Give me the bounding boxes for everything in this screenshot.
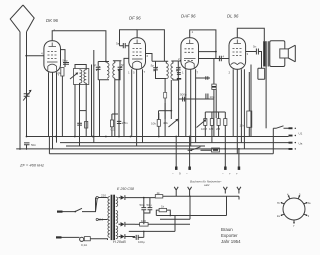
svg-text:+: + — [229, 172, 231, 176]
svg-text:−: − — [222, 172, 224, 176]
svg-text:DF 96: DF 96 — [129, 16, 141, 21]
svg-text:0,1A: 0,1A — [81, 243, 87, 247]
svg-text:50p: 50p — [63, 59, 68, 63]
svg-text:DK 96: DK 96 — [46, 18, 59, 23]
svg-text:E 250 C58: E 250 C58 — [117, 187, 134, 191]
svg-text:5p: 5p — [93, 63, 97, 67]
svg-text:40k: 40k — [163, 121, 168, 125]
svg-text:220: 220 — [101, 194, 106, 198]
svg-text:100: 100 — [141, 219, 146, 223]
svg-text:5p: 5p — [151, 64, 155, 68]
svg-text:−: − — [186, 172, 188, 176]
svg-text:Exporter: Exporter — [221, 233, 238, 238]
svg-text:10k: 10k — [56, 71, 61, 75]
svg-text:Ua: Ua — [299, 142, 303, 146]
svg-text:1k: 1k — [161, 205, 165, 209]
svg-text:50n: 50n — [31, 143, 36, 147]
svg-text:+: + — [148, 205, 150, 209]
svg-text:10k: 10k — [151, 122, 156, 126]
svg-text:5a: 5a — [116, 42, 120, 46]
svg-text:0,1: 0,1 — [111, 128, 116, 132]
svg-text:100μ: 100μ — [138, 240, 145, 244]
svg-text:+: + — [236, 172, 238, 176]
svg-text:DL 96: DL 96 — [227, 14, 239, 19]
svg-text:50μ: 50μ — [140, 203, 145, 207]
svg-text:U1: U1 — [299, 132, 303, 136]
svg-text:H 20uB: H 20uB — [113, 240, 126, 244]
svg-text:10M: 10M — [201, 127, 207, 131]
svg-text:5n: 5n — [253, 45, 257, 49]
svg-text:2,5n: 2,5n — [122, 121, 128, 125]
svg-text:satz: satz — [204, 183, 210, 187]
svg-text:10n: 10n — [240, 124, 245, 128]
svg-text:1M: 1M — [209, 127, 214, 131]
svg-text:ZF = 460 kHz: ZF = 460 kHz — [19, 163, 44, 168]
svg-text:−: − — [172, 172, 174, 176]
svg-text:Braun: Braun — [221, 227, 233, 232]
svg-text:1k: 1k — [157, 191, 161, 195]
svg-text:DAF 96: DAF 96 — [181, 14, 196, 19]
svg-text:Jahr 1954: Jahr 1954 — [221, 239, 241, 244]
